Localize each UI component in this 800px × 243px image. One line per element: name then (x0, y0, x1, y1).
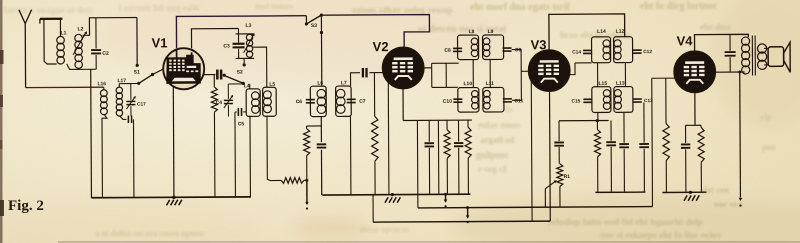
wire tank top bar (82, 18, 137, 36)
scan edge (0, 0, 3, 243)
svg-text:L2: L2 (78, 26, 84, 32)
ground (172, 196, 175, 199)
capacitor (cathode bypass) (610, 120, 612, 140)
bus A (ground return) (322, 193, 470, 196)
switch S1 (136, 18, 138, 64)
capacitor C6 (306, 100, 315, 103)
svg-text:L3: L3 (246, 23, 252, 29)
svg-text:C9: C9 (515, 47, 522, 53)
resistor (osc grid leak) (307, 125, 322, 127)
svg-text:noc era: noc era (714, 199, 743, 209)
svg-text:C15: C15 (571, 98, 580, 104)
capacitor (V4 cathode bypass) (686, 124, 695, 126)
wire S3 to L6 tank (320, 15, 322, 86)
wire L5 to AVC pot (267, 116, 281, 180)
wire tank to ground bus (90, 69, 93, 197)
capacitor C3 (237, 29, 239, 34)
coupling capacitor at L17 bottom (119, 116, 126, 120)
wire secondary to speaker (764, 47, 768, 49)
capacitor (screen bypass) (457, 120, 459, 141)
switch S3 (305, 16, 307, 23)
svg-text:rehsilop laitn eref fid eht hg: rehsilop laitn eref fid eht hguorht delp (548, 218, 703, 228)
wire L3 tank to L5 (252, 47, 267, 87)
svg-text:argatl ed: argatl ed (480, 135, 514, 145)
svg-text:eht morf dna egats tsrif: eht morf dna egats tsrif (470, 2, 571, 13)
svg-text:L9: L9 (488, 29, 494, 35)
capacitor (tone) (729, 34, 731, 50)
svg-text:L16: L16 (97, 81, 106, 87)
svg-text:gnilpuoc: gnilpuoc (476, 150, 509, 160)
wire V2 cathode node (402, 88, 404, 120)
wire tank bottom bar (67, 64, 97, 70)
svg-text:C4: C4 (216, 100, 223, 106)
svg-text:C17: C17 (137, 101, 146, 107)
svg-text:C12: C12 (643, 49, 652, 55)
resistor (screen dropper) (467, 120, 469, 127)
svg-text:la: la (505, 104, 513, 114)
variable capacitor C4 (228, 83, 243, 85)
svg-text:detar oprocni: detar oprocni (360, 224, 410, 234)
resistor (V3 cathode) (596, 121, 598, 130)
svg-text:det cen: det cen (702, 185, 729, 195)
wire V4 plate top (695, 34, 749, 51)
wire antenna to L16 (26, 86, 104, 88)
inductor L1 (57, 36, 65, 44)
resistor (cathode) (446, 120, 448, 129)
svg-text:C6: C6 (296, 99, 303, 105)
resistor (AVC divider, horizontal) (281, 178, 304, 184)
svg-text:pus: pus (762, 142, 776, 152)
wire plain drop (437, 120, 439, 194)
svg-text:S3: S3 (311, 23, 317, 29)
svg-text:ylp: ylp (760, 112, 772, 122)
svg-text:L8: L8 (469, 29, 475, 35)
svg-text:C2: C2 (102, 51, 109, 57)
wire V3 plate rail (549, 14, 625, 50)
svg-text:r-seg-cf: r-seg-cf (478, 164, 508, 174)
svg-text:lartan o ensigne ot detc: lartan o ensigne ot detc (4, 5, 93, 15)
ground bus (left) (91, 196, 250, 199)
wire V4 anode to output transformer (715, 71, 744, 73)
inductor L2 (tuned) (75, 34, 83, 42)
svg-text:V4: V4 (677, 33, 694, 48)
battery tap arrow bus B (467, 208, 469, 218)
svg-text:C8: C8 (444, 48, 451, 54)
svg-text:C11: C11 (514, 98, 523, 104)
wire V1 anode (204, 74, 216, 76)
resistor (V1 anode load) (213, 75, 215, 87)
capacitor C2 (95, 18, 97, 49)
resistor (V4 cathode) (698, 127, 704, 162)
wire IF1 links (472, 60, 474, 88)
wire L7 to ground bus A (349, 116, 351, 194)
capacitor (coupling) (643, 103, 645, 143)
wire grid to bus B (651, 78, 654, 206)
wire bus A to bus B riser (417, 194, 419, 207)
capacitor C5 (235, 111, 237, 113)
capacitor C7 (347, 99, 356, 102)
AVC riser left (372, 195, 374, 222)
wire V4 cathode (695, 92, 701, 125)
battery arrow right (739, 198, 743, 201)
wire node to bus A (416, 120, 418, 194)
svg-text:V1: V1 (152, 35, 168, 50)
svg-text:eulav emos: eulav emos (478, 120, 521, 130)
svg-text:V2: V2 (373, 39, 389, 54)
output transformer secondary (757, 44, 766, 53)
svg-text:L12: L12 (616, 29, 625, 35)
wire L3 tank to S2 contact (243, 58, 245, 63)
wire B+ top rail (176, 16, 306, 49)
wire S1 feed (119, 83, 138, 85)
wire L6 box to bus A (320, 117, 322, 143)
svg-text:inul temov: inul temov (255, 1, 294, 11)
resistor (V4 grid leak) (665, 78, 667, 123)
svg-text:I ravooh lld-auq raW: I ravooh lld-auq raW (118, 3, 200, 13)
potentiometer R1 (557, 164, 563, 187)
bus B (B+ return) (418, 207, 653, 208)
wire C5 to ground bus (234, 112, 236, 197)
wire V4 grid (652, 77, 675, 79)
svg-text:S1: S1 (134, 69, 140, 75)
wire V1 screen to C3/L3 tank (191, 29, 238, 49)
coupling capacitor to V2 grid (363, 68, 367, 77)
svg-text:C5: C5 (238, 121, 245, 127)
svg-text:S2: S2 (237, 69, 243, 75)
svg-text:L10: L10 (463, 81, 472, 87)
capacitor (osc padder) (317, 144, 327, 147)
V3 cathode node bar (559, 119, 609, 121)
svg-text:eht dna: eht dna (700, 23, 731, 33)
battery tap arrow (306, 180, 308, 204)
wire V1 cathode (172, 87, 175, 197)
svg-text:eht fo dirg lortnoc: eht fo dirg lortnoc (640, 1, 718, 12)
capacitor (IF bypass) (623, 112, 625, 142)
svg-text:C3: C3 (223, 43, 230, 49)
svg-text:a ni dellat sni era stnen opmo: a ni dellat sni era stnen opmoc (95, 228, 205, 238)
svg-text:L14: L14 (597, 29, 606, 35)
antenna (19, 10, 26, 88)
resistor (V2 grid leak) (373, 73, 375, 116)
capacitor (cathode bypass) (428, 120, 430, 141)
capacitor (AVC filter) (558, 121, 560, 141)
wire speaker return (739, 72, 742, 197)
svg-text:L1: L1 (61, 30, 67, 36)
ground (391, 193, 394, 196)
svg-text:C10: C10 (443, 99, 452, 105)
battery tap arrow bus A (445, 194, 447, 201)
wire V3 cathode (549, 91, 552, 221)
wire IF2 links (597, 63, 599, 87)
svg-text:L13: L13 (616, 81, 625, 87)
ground (684, 195, 699, 201)
coupling capacitor (V1 anode) (217, 70, 221, 80)
bus segment below IF2 (595, 191, 645, 193)
svg-text:Fig. 2: Fig. 2 (8, 198, 44, 214)
wire IF1 secondary to V3 grid (512, 50, 522, 101)
speaker (768, 47, 784, 67)
wire V3 anode to IF2 (569, 63, 575, 75)
wire AVC drop (530, 71, 533, 221)
wire L1 primary loop (44, 19, 57, 64)
wire S1 to V1 grid (152, 69, 164, 75)
svg-text:R1: R1 (564, 174, 571, 180)
svg-text:L11: L11 (486, 81, 495, 87)
output transformer core (752, 35, 755, 75)
wire V2 screen to ground (387, 82, 390, 195)
wire L7 top to coupling cap (351, 73, 361, 86)
ground bus (right) (662, 191, 706, 193)
wire top rail to V2 (321, 15, 429, 48)
output transformer primary (741, 37, 749, 45)
svg-text:L15: L15 (598, 81, 607, 87)
variable capacitor C17 (130, 84, 132, 100)
svg-text:C14: C14 (572, 49, 581, 55)
svg-text:uoc si rekaeps eht fo lioc eci: uoc si rekaeps eht fo lioc eciov (600, 231, 722, 241)
wire V2 anode to IF1 (423, 67, 431, 69)
bus C (AVC line) (373, 221, 550, 222)
svg-text:C7: C7 (359, 99, 366, 105)
